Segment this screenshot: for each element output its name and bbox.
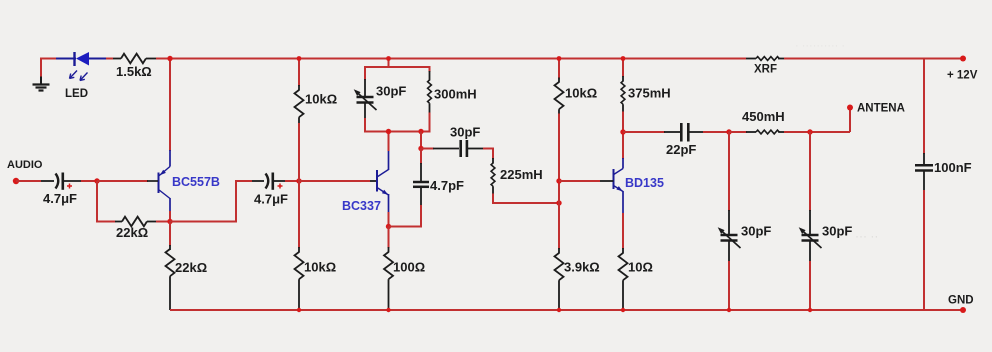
- svg-text:4.7pF: 4.7pF: [430, 178, 464, 193]
- svg-text:100nF: 100nF: [934, 160, 972, 175]
- svg-text:··· ··: ··· ··: [855, 229, 878, 243]
- svg-text:+ 12V: + 12V: [947, 70, 978, 82]
- svg-text:XRF: XRF: [754, 64, 777, 76]
- svg-text:BC557B: BC557B: [172, 175, 220, 189]
- svg-text:3.9kΩ: 3.9kΩ: [564, 260, 600, 275]
- svg-text:BC337: BC337: [342, 199, 381, 213]
- svg-text:· ·········· ·: · ·········· ·: [795, 40, 845, 52]
- svg-text:4.7μF: 4.7μF: [254, 192, 288, 207]
- svg-text:300mH: 300mH: [434, 87, 477, 102]
- svg-text:30pF: 30pF: [822, 224, 852, 239]
- svg-text:22kΩ: 22kΩ: [116, 225, 148, 240]
- svg-text:100Ω: 100Ω: [393, 260, 425, 275]
- svg-text:LED: LED: [65, 88, 88, 100]
- svg-text:450mH: 450mH: [742, 109, 785, 124]
- svg-text:AUDIO: AUDIO: [7, 159, 43, 171]
- svg-text:30pF: 30pF: [741, 224, 771, 239]
- svg-text:10kΩ: 10kΩ: [304, 260, 336, 275]
- svg-text:22pF: 22pF: [666, 142, 696, 157]
- svg-text:10kΩ: 10kΩ: [305, 92, 337, 107]
- svg-text:BD135: BD135: [625, 176, 664, 190]
- svg-text:225mH: 225mH: [500, 167, 543, 182]
- svg-text:4.7μF: 4.7μF: [43, 191, 77, 206]
- svg-text:22kΩ: 22kΩ: [175, 260, 207, 275]
- svg-text:30pF: 30pF: [450, 125, 480, 140]
- svg-text:30pF: 30pF: [376, 84, 406, 99]
- svg-text:375mH: 375mH: [628, 86, 671, 101]
- svg-text:ANTENA: ANTENA: [857, 103, 905, 115]
- svg-text:1.5kΩ: 1.5kΩ: [116, 64, 152, 79]
- svg-text:10Ω: 10Ω: [628, 260, 653, 275]
- svg-text:10kΩ: 10kΩ: [565, 86, 597, 101]
- svg-text:GND: GND: [948, 295, 974, 307]
